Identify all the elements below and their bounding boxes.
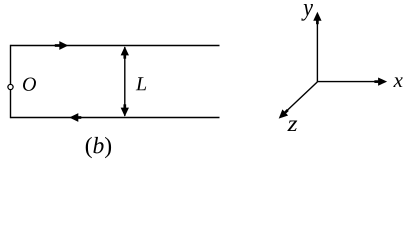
axis x bbox=[317, 77, 387, 85]
caption (b) bbox=[86, 137, 111, 158]
node O terminal circle bbox=[8, 84, 13, 89]
dimension line L (double arrow) bbox=[121, 46, 129, 116]
axis y bbox=[313, 12, 321, 82]
dimension label L bbox=[136, 77, 146, 90]
wire top bbox=[11, 45, 220, 47]
axis label z bbox=[287, 120, 297, 131]
axis label x bbox=[393, 77, 402, 87]
axis label y bbox=[301, 4, 313, 21]
wire bottom bbox=[11, 117, 220, 119]
wire left bbox=[10, 45, 12, 118]
current arrow top (rightward) bbox=[55, 41, 69, 50]
current arrow bottom (leftward) bbox=[69, 113, 81, 122]
node label O bbox=[23, 77, 36, 90]
axis z bbox=[279, 82, 318, 119]
